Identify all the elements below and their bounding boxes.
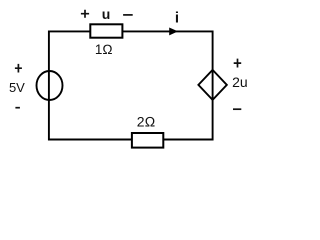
svg-text:u: u <box>102 6 111 22</box>
wire top (node between source, R1 and dependent source) <box>49 30 213 32</box>
current arrow head <box>170 28 177 35</box>
wire left (through voltage source) <box>48 30 50 140</box>
svg-text:i: i <box>175 10 179 27</box>
polarity + of 5V <box>15 64 22 73</box>
dependent source U1 diamond <box>198 70 226 100</box>
voltage source V1 circle <box>37 71 63 100</box>
polarity + of 2u <box>234 59 242 68</box>
svg-text:2Ω: 2Ω <box>137 114 156 130</box>
polarity - of 5V <box>15 107 20 109</box>
resistor R2 body <box>132 133 163 148</box>
resistor R1 body <box>90 24 122 37</box>
polarity - of 2u <box>233 108 241 110</box>
wire bottom (node between source, R2 and dependent source) <box>49 139 213 141</box>
svg-text:2u: 2u <box>232 74 248 90</box>
svg-text:1Ω: 1Ω <box>95 42 113 57</box>
polarity - of u <box>123 14 133 16</box>
polarity + of u <box>81 10 89 18</box>
svg-text:5V: 5V <box>9 80 25 95</box>
wire right (through dependent source) <box>212 30 214 140</box>
